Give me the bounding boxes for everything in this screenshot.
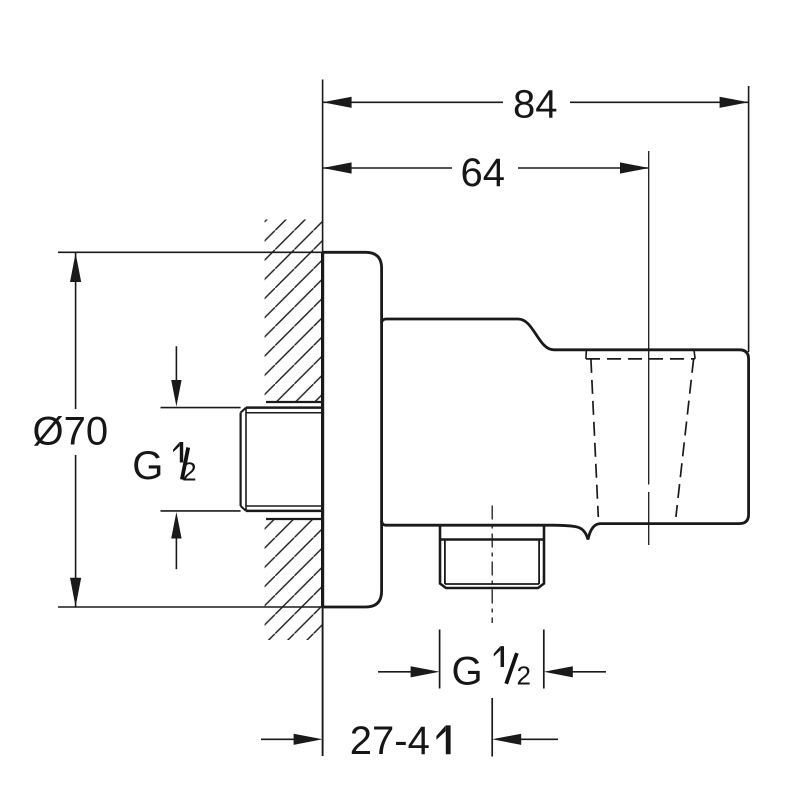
svg-text:Ø70: Ø70	[33, 409, 109, 453]
svg-text:27-4: 27-4	[350, 719, 430, 763]
svg-text:64: 64	[461, 151, 506, 195]
svg-text:G: G	[452, 649, 483, 693]
svg-text:2: 2	[517, 660, 531, 690]
svg-text:2: 2	[182, 457, 196, 487]
svg-text:84: 84	[513, 83, 558, 127]
svg-text:G: G	[132, 444, 163, 488]
